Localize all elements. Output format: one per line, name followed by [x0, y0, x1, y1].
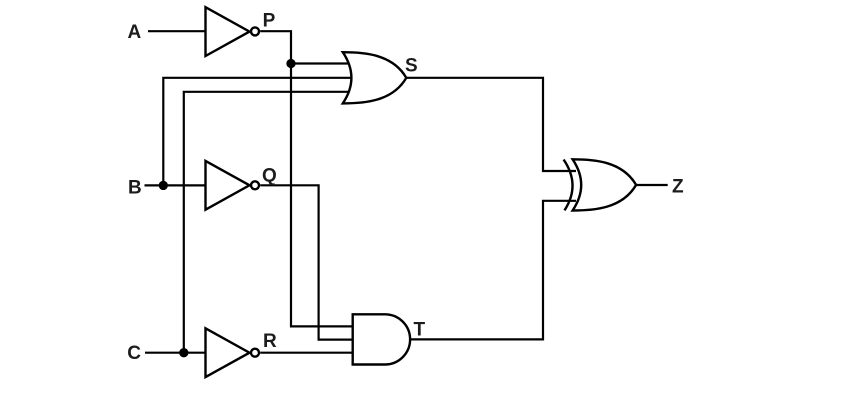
wire B input	[145, 184, 206, 186]
junction dot on B wire	[159, 181, 168, 190]
wire A input	[148, 30, 206, 32]
wire C input	[145, 352, 206, 354]
wire Z output	[636, 184, 668, 186]
wire S net: OR output to XOR top input	[406, 78, 576, 171]
inverter U1 bubble	[251, 27, 259, 35]
svg-text:S: S	[405, 55, 418, 76]
svg-text:Q: Q	[262, 165, 277, 186]
inverter U2 bubble	[251, 181, 259, 189]
OR gate U4 (output S)	[343, 52, 407, 103]
svg-text:B: B	[128, 178, 142, 199]
inverter U2 (B to Q) triangle	[206, 161, 250, 210]
wire P junction to OR input 1	[291, 62, 350, 64]
XOR gate U6 (output Z) extra input arc	[564, 160, 573, 211]
svg-text:R: R	[263, 331, 277, 352]
wire T net: AND output to XOR bottom input	[410, 201, 576, 340]
junction dot on C wire	[179, 348, 188, 357]
svg-text:A: A	[128, 22, 142, 43]
svg-text:C: C	[127, 343, 141, 364]
inverter U3 bubble	[251, 349, 259, 357]
svg-text:P: P	[263, 10, 276, 31]
svg-text:Z: Z	[672, 176, 684, 197]
wire C up to OR input 3	[184, 92, 350, 353]
wire R to AND bottom input	[260, 352, 353, 354]
inverter U3 (C to R) triangle	[206, 328, 250, 377]
AND gate U5 (output T)	[353, 314, 410, 364]
wire B up to OR input 2	[163, 78, 351, 186]
wire Q net: bubble right, down, into AND middle input	[260, 185, 353, 339]
inverter U1 (A to P) triangle	[206, 7, 250, 56]
junction dot on P vertical	[286, 59, 295, 68]
wire P net: bubble to corner, down, into AND top input	[260, 31, 353, 326]
XOR gate U6 body	[573, 159, 637, 210]
svg-text:T: T	[414, 319, 426, 340]
